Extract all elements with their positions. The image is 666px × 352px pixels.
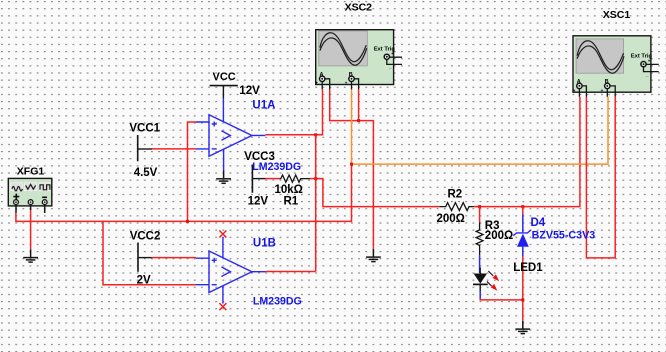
op-amp U1A (comparator) <box>196 98 265 171</box>
junction (XFG signal / scopes B) <box>350 163 353 166</box>
svg-text:+: + <box>648 58 651 63</box>
svg-text:_: _ <box>616 88 620 93</box>
svg-text:12V: 12V <box>248 195 269 207</box>
resistor R3 (200) vertical zigzag <box>476 222 483 255</box>
oscilloscope XSC2 <box>316 30 403 90</box>
svg-text:U1A: U1A <box>252 100 275 112</box>
wire: XFG1 common to ground <box>30 210 32 250</box>
wire: VCC3 to R1 left lead <box>265 178 280 180</box>
svg-text:+: + <box>573 88 576 93</box>
ground (below D4) <box>515 321 530 334</box>
svg-text:BZV55-C3V3: BZV55-C3V3 <box>532 229 596 241</box>
svg-text:+: + <box>345 81 348 86</box>
wire: VCC1 to U1A inverting input <box>152 148 196 150</box>
svg-text:XFG1: XFG1 <box>17 166 45 178</box>
junction (R3 tap) <box>478 205 481 208</box>
svg-text:12V: 12V <box>239 85 260 97</box>
svg-text:_: _ <box>331 81 335 86</box>
svg-text:+: + <box>316 81 319 86</box>
function generator XFG1 <box>8 178 52 213</box>
wire: R2 to D4 and XSC1 channel A <box>474 97 580 207</box>
node wire (blue): LED1 bottom <box>479 291 481 299</box>
ground (below XFG1) <box>23 249 38 262</box>
junction (R1 to output bus) <box>314 177 317 180</box>
svg-text:VCC1: VCC1 <box>129 123 160 135</box>
svg-text:LED1: LED1 <box>513 262 543 274</box>
svg-text:_: _ <box>360 81 364 86</box>
power VCC1 symbol <box>138 135 152 161</box>
wire: U1A output to XSC2 channel A <box>265 89 322 134</box>
wire: U1A non-inverting input riser <box>188 122 197 221</box>
node wire (blue): D4 bottom lead <box>522 247 524 257</box>
wire: R1 right lead to bus <box>310 178 316 180</box>
wire: XSC2 B- drop <box>358 89 360 120</box>
node wire (blue): D4 top lead <box>522 214 524 232</box>
resistor R1 (10k) zigzag <box>280 175 310 182</box>
power VCC3 symbol <box>252 165 265 193</box>
svg-text:_: _ <box>388 65 392 70</box>
svg-text:VCC: VCC <box>213 71 236 83</box>
svg-text:U1B: U1B <box>253 238 276 250</box>
LED1 <box>473 267 499 291</box>
wire: long orange to XSC1 B+ <box>352 97 609 164</box>
op-amp U1B (comparator) <box>196 237 266 304</box>
ground (below XSC2) <box>366 249 381 262</box>
svg-text:+: + <box>601 88 604 93</box>
junction (U1A output bus top) <box>314 133 317 136</box>
svg-text:R2: R2 <box>448 189 463 201</box>
svg-text:_: _ <box>645 72 649 77</box>
unconnected pin X (U1B VCC+) <box>219 231 226 238</box>
wire: XSC2 B+ vertical (orange) <box>351 89 353 164</box>
svg-text:XSC1: XSC1 <box>603 9 631 21</box>
wire: XSC1 A- and B- tie <box>586 97 615 258</box>
resistor R2 (200) zigzag <box>439 203 474 211</box>
svg-text:D4: D4 <box>531 217 546 229</box>
junction (LED / D4 / ground) <box>521 298 524 301</box>
node wire (blue): R3 to LED1 <box>479 255 481 273</box>
junction (XSC2 B- / gnd rail) <box>357 119 360 122</box>
wire: D4 anode to ground, LED bottom rail <box>480 256 523 321</box>
wire: R3 top lead from node <box>479 207 481 223</box>
wire: VCC2 to U1B + input <box>152 257 196 259</box>
wire: XFG1 + output, runs right then up to scope-B node <box>16 164 352 221</box>
oscilloscope XSC1 <box>573 36 659 97</box>
svg-text:10kΩ: 10kΩ <box>275 184 303 196</box>
svg-text:200Ω: 200Ω <box>485 230 513 242</box>
wire: output bus vertical (U1A out to U1B out) <box>315 135 317 272</box>
svg-text:LM239DG: LM239DG <box>253 296 302 308</box>
svg-text:_: _ <box>588 88 592 93</box>
junction (D4 tap) <box>521 205 524 208</box>
wire: bus to R2 line <box>316 179 440 207</box>
ground (below U1A) <box>216 171 231 184</box>
wire: XSC2 A- / B- to ground <box>330 89 374 248</box>
svg-text:VCC2: VCC2 <box>130 230 161 242</box>
svg-text:VCC3: VCC3 <box>244 151 275 163</box>
wire: signal to U1B - input <box>103 222 196 285</box>
svg-text:+: + <box>391 51 394 56</box>
svg-text:200Ω: 200Ω <box>437 213 465 225</box>
power VCC2 symbol <box>138 243 152 272</box>
svg-text:XSC2: XSC2 <box>345 2 373 14</box>
power VCC symbol <box>210 86 238 99</box>
unconnected pin X (U1B VCC-) <box>219 303 226 310</box>
junction (XFG output / U1A + input) <box>186 220 189 223</box>
diode D4 zener BZV55-C3V3 <box>513 230 531 247</box>
wire: U1B output <box>266 271 316 273</box>
svg-text:4.5V: 4.5V <box>134 167 158 179</box>
svg-text:R1: R1 <box>284 196 299 208</box>
wire: D4 cathode lead from node <box>522 207 524 215</box>
